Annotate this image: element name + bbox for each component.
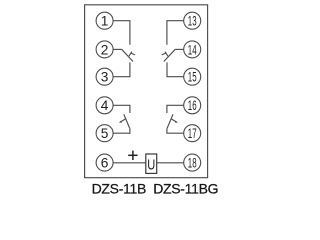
- svg-text:13: 13: [188, 14, 197, 29]
- svg-text:4: 4: [101, 98, 109, 113]
- svg-text:1: 1: [101, 14, 109, 29]
- wire from terminal 16: [167, 105, 184, 113]
- terminal 13: [184, 12, 201, 29]
- coil U1 box: [146, 154, 157, 173]
- wire from terminal 5: [113, 129, 130, 133]
- wire from terminal 17: [167, 129, 184, 133]
- contact cross mark left: [129, 52, 135, 57]
- terminal 18: [184, 154, 201, 171]
- contact arm K2 (terminal 14 moving contact): [164, 49, 175, 61]
- terminal 5: [96, 125, 113, 142]
- svg-text:3: 3: [101, 70, 109, 85]
- wire from terminal 13: [167, 21, 184, 45]
- svg-text:5: 5: [101, 126, 109, 141]
- terminal 15: [184, 68, 201, 85]
- wire from terminal 15: [167, 62, 184, 76]
- svg-text:14: 14: [188, 42, 197, 57]
- wire from terminal 2: [113, 48, 122, 50]
- terminal 6: [96, 154, 113, 171]
- plus polarity mark: [128, 151, 137, 160]
- relay case outline: [85, 5, 208, 178]
- wire from terminal 1: [113, 21, 130, 45]
- svg-text:16: 16: [188, 98, 197, 113]
- contact arm K1 (terminal 2 moving contact): [122, 49, 133, 61]
- wire from terminal 3: [113, 62, 130, 76]
- terminal 1: [96, 12, 113, 29]
- terminal 2: [96, 41, 113, 58]
- contact arm K3 (terminals 4-5 delayed contact): [124, 114, 130, 129]
- svg-text:2: 2: [101, 42, 109, 57]
- delay arrow left: [119, 119, 125, 123]
- svg-text:DZS-11BG: DZS-11BG: [153, 181, 218, 197]
- terminal 4: [96, 97, 113, 114]
- contact cross mark right: [162, 52, 168, 57]
- contact arm K4 (terminals 16-17 delayed contact): [167, 114, 173, 129]
- wire from terminal 14: [175, 48, 184, 50]
- wire from terminal 6 to coil: [113, 162, 146, 164]
- terminal 3: [96, 68, 113, 85]
- svg-text:6: 6: [101, 156, 109, 171]
- wire from coil to terminal 18: [157, 162, 184, 164]
- svg-text:15: 15: [188, 70, 197, 85]
- wire from terminal 4: [113, 105, 130, 113]
- delay arrow right: [172, 119, 178, 123]
- svg-text:DZS-11B: DZS-11B: [92, 181, 146, 197]
- terminal 14: [184, 41, 201, 58]
- terminal 17: [184, 125, 201, 142]
- svg-text:17: 17: [188, 126, 197, 141]
- svg-text:18: 18: [188, 156, 197, 171]
- terminal 16: [184, 97, 201, 114]
- svg-text:U: U: [147, 158, 155, 174]
